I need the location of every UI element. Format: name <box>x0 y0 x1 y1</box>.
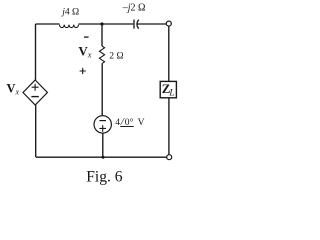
wire middle mid <box>101 64 103 116</box>
svg-text:–j2 Ω: –j2 Ω <box>122 3 146 14</box>
wire left lower <box>35 105 37 157</box>
svg-text:2 Ω: 2 Ω <box>109 50 123 61</box>
wire middle upper <box>101 24 103 46</box>
inductor L1 j4 ohm <box>60 25 79 28</box>
junction node bottom <box>102 156 105 159</box>
wire bottom <box>36 156 167 158</box>
minus sign in diamond <box>31 96 38 98</box>
junction node top <box>100 22 103 25</box>
capacitor C1 -j2 ohm left plate <box>133 20 135 29</box>
load box ZL <box>160 81 176 97</box>
wire middle lower <box>102 133 104 157</box>
wire cap to terminal <box>137 23 167 25</box>
source circle 4 angle 0 V <box>94 116 111 133</box>
svg-text:Fig. 6: Fig. 6 <box>86 168 122 185</box>
plus sign below middle Vx <box>80 68 86 74</box>
wire top-left horizontal <box>36 23 60 25</box>
svg-text:L: L <box>168 89 174 99</box>
svg-text:Vx: Vx <box>7 81 20 96</box>
terminal circle bottom-right <box>167 155 172 160</box>
wire left upper <box>35 24 37 80</box>
terminal circle top-right <box>166 21 171 26</box>
resistor R1 2 ohm zigzag <box>99 46 104 64</box>
svg-text:j4 Ω: j4 Ω <box>60 7 79 18</box>
svg-text:V: V <box>138 117 145 128</box>
wire right upper <box>168 26 170 81</box>
minus sign in source <box>99 120 106 122</box>
svg-text:Vx: Vx <box>78 44 91 60</box>
svg-text:4: 4 <box>115 117 120 128</box>
plus sign in source <box>99 125 106 132</box>
wire right lower <box>168 98 170 155</box>
plus sign in diamond <box>32 84 39 91</box>
angle underline <box>120 126 133 128</box>
dependent source diamond Vx <box>23 80 47 105</box>
wire top middle <box>79 23 134 25</box>
capacitor C1 right plate <box>137 20 139 29</box>
minus sign above middle Vx <box>84 36 89 38</box>
